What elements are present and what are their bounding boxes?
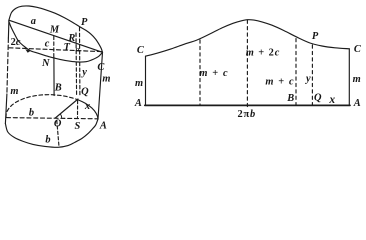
svg-text:A: A — [134, 98, 142, 109]
svg-text:A: A — [99, 121, 107, 132]
svg-text:N: N — [41, 58, 50, 69]
svg-text:B: B — [286, 93, 294, 104]
svg-text:M: M — [49, 24, 60, 35]
svg-text:a: a — [31, 16, 36, 27]
svg-text:y: y — [304, 73, 311, 84]
svg-text:x: x — [328, 94, 335, 106]
svg-text:C: C — [354, 44, 362, 55]
svg-text:m: m — [10, 86, 18, 97]
svg-text:m + c: m + c — [265, 76, 294, 87]
svg-text:2c: 2c — [11, 37, 21, 48]
svg-text:m + 2c: m + 2c — [246, 47, 280, 58]
svg-text:x: x — [84, 101, 90, 112]
svg-text:Q: Q — [81, 86, 89, 97]
svg-text:m: m — [135, 78, 143, 89]
svg-text:c: c — [45, 39, 50, 50]
svg-text:O: O — [54, 118, 62, 129]
svg-text:P: P — [81, 17, 88, 28]
svg-text:T: T — [64, 42, 71, 53]
svg-text:m: m — [353, 74, 361, 85]
svg-text:2πb: 2πb — [238, 109, 256, 120]
svg-text:y: y — [80, 67, 87, 78]
svg-text:m + c: m + c — [199, 68, 228, 79]
svg-text:A: A — [353, 98, 361, 109]
svg-text:C: C — [137, 45, 145, 56]
svg-text:b: b — [45, 135, 50, 146]
svg-text:m: m — [102, 74, 110, 85]
svg-text:Q: Q — [314, 93, 322, 104]
svg-text:P: P — [312, 31, 319, 42]
svg-text:C: C — [97, 62, 105, 73]
svg-text:S: S — [75, 121, 81, 132]
svg-text:b: b — [29, 107, 34, 118]
svg-text:B: B — [54, 82, 62, 93]
